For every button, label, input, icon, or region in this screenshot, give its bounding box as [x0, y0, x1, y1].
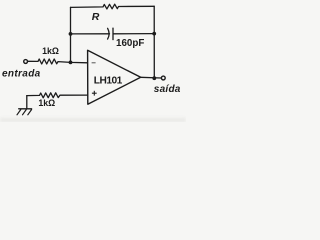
svg-text:160pF: 160pF — [116, 38, 144, 49]
svg-text:1kΩ: 1kΩ — [42, 46, 59, 56]
svg-text:LH101: LH101 — [94, 76, 123, 87]
svg-text:R: R — [92, 11, 100, 23]
svg-text:entrada: entrada — [2, 68, 41, 79]
svg-text:saída: saída — [154, 84, 181, 95]
svg-text:1kΩ: 1kΩ — [38, 98, 55, 108]
